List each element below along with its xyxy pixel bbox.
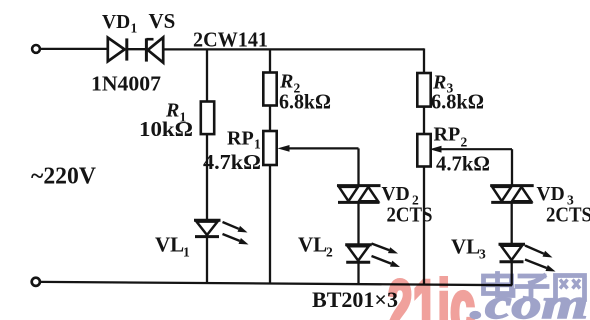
svg-text:1: 1: [131, 21, 138, 36]
label VL3: [451, 235, 486, 262]
wire VL2 to bottom rail: [357, 262, 359, 284]
label 10k: [139, 117, 193, 141]
label R2: [279, 71, 301, 96]
label VL2: [298, 233, 333, 260]
label VL1: [155, 233, 190, 260]
terminal top-left: [32, 45, 40, 53]
svg-text:.com: .com: [470, 282, 588, 320]
label VD3: [537, 184, 575, 208]
RP1 wiper arrow: [278, 145, 359, 152]
wire rail to R2: [269, 49, 271, 73]
svg-text:3: 3: [479, 247, 486, 262]
svg-text:6.8kΩ: 6.8kΩ: [279, 90, 331, 114]
label 6.8k R3: [431, 90, 484, 114]
label 2CW141: [193, 28, 268, 52]
wire RP1 to bottom rail: [269, 165, 271, 284]
wire wiper1 down to VD2: [357, 148, 359, 186]
svg-text:~220V: ~220V: [31, 164, 97, 190]
svg-text:2: 2: [461, 135, 468, 150]
wire VL3 to bottom rail: [511, 262, 513, 286]
potentiometer RP2: [417, 134, 430, 167]
svg-text:1N4007: 1N4007: [91, 72, 161, 96]
resistor R3: [417, 73, 430, 107]
wire R2 to RP1: [269, 106, 271, 133]
svg-text:6.8kΩ: 6.8kΩ: [431, 90, 484, 114]
label R3: [432, 72, 454, 96]
LED VL2: [345, 245, 372, 262]
label 1N4007: [91, 72, 161, 96]
svg-text:10kΩ: 10kΩ: [139, 117, 193, 141]
svg-text:2CW141: 2CW141: [193, 28, 268, 52]
svg-text:VL: VL: [298, 233, 327, 257]
svg-text:4.7kΩ: 4.7kΩ: [436, 152, 490, 176]
label VD1: [102, 12, 138, 36]
watermark char dian: [484, 274, 514, 296]
diac VD3: [490, 186, 534, 203]
svg-text:VS: VS: [149, 9, 176, 33]
svg-text:2: 2: [326, 245, 333, 260]
watermark char zi: [517, 276, 547, 299]
wire VD3 to VL3: [511, 202, 513, 245]
potentiometer RP1: [263, 131, 276, 165]
svg-text:VD: VD: [102, 12, 130, 33]
wire wiper2 down to VD3: [511, 149, 513, 186]
wire bottom rail: [40, 282, 512, 285]
LED VL3 emission arrows: [525, 246, 556, 272]
svg-text:RP: RP: [434, 124, 461, 146]
LED VL2 emission arrows: [372, 244, 401, 268]
wire top rail left segment: [40, 48, 108, 50]
wire VD2 to VL2: [357, 202, 359, 246]
svg-text:2CTS: 2CTS: [387, 203, 433, 227]
label 6.8k R2: [279, 90, 331, 114]
zener diode VS: [146, 37, 163, 62]
label R1: [165, 100, 187, 125]
RP2 wiper arrow: [430, 146, 513, 153]
diac VD2: [337, 186, 381, 203]
label BT201x3: [312, 287, 398, 312]
svg-text:21ic: 21ic: [388, 266, 476, 320]
wire between VD1 and VS: [128, 48, 146, 50]
label VD2: [382, 184, 420, 208]
wire rail corner to R3: [423, 48, 425, 74]
watermark .com: [470, 282, 588, 320]
label RP1: [227, 128, 261, 152]
label ~220V: [31, 164, 97, 190]
label VS: [149, 9, 176, 33]
svg-text:RP: RP: [227, 128, 254, 150]
svg-text:2CTS: 2CTS: [546, 203, 590, 227]
terminal bottom-left: [32, 278, 40, 286]
label 2CTS VD3: [546, 203, 590, 227]
wire R1 to VL1: [206, 134, 208, 221]
label 4.7k RP2: [436, 152, 490, 176]
label 4.7k RP1: [203, 150, 261, 174]
svg-text:VL: VL: [155, 233, 184, 257]
wire VL1 to bottom rail: [206, 237, 208, 284]
watermark 21ic: [388, 266, 476, 320]
label 2CTS VD2: [387, 203, 433, 227]
wire R3 to RP2: [423, 107, 425, 136]
svg-text:BT201×3: BT201×3: [312, 287, 398, 312]
label RP2: [434, 124, 468, 150]
wire top rail right segment: [163, 48, 424, 50]
LED VL1 emission arrows: [223, 222, 249, 245]
diode VD1: [108, 38, 127, 62]
LED VL1: [194, 220, 221, 236]
LED VL3: [499, 244, 526, 261]
watermark char wang: [556, 276, 585, 300]
wire RP2 to bottom rail: [423, 167, 425, 285]
wire rail to R1: [206, 49, 208, 102]
resistor R1: [201, 102, 214, 135]
resistor R2: [263, 73, 276, 106]
svg-text:1: 1: [183, 245, 190, 260]
svg-text:4.7kΩ: 4.7kΩ: [203, 150, 261, 174]
svg-text:VL: VL: [451, 235, 480, 259]
